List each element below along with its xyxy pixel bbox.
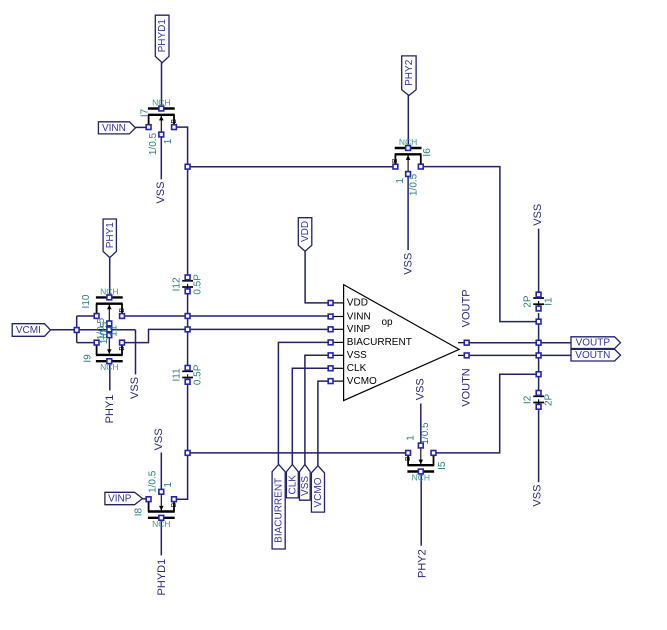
wire I10 bulk to I9 bulk	[108, 326, 110, 333]
junction VOUTP wire	[536, 340, 541, 345]
svg-text:B: B	[392, 158, 399, 163]
wire I5 bulk up to VSS	[420, 404, 422, 445]
wire VSS pin up to op	[305, 355, 328, 464]
pin label VCMI	[12, 324, 50, 337]
svg-text:VCMO: VCMO	[313, 477, 324, 507]
wire I5 drain right/up to VOUTN node	[437, 374, 537, 453]
wire bulk node to VSS (down at x=135.5)	[135, 330, 137, 375]
svg-text:NCH: NCH	[152, 98, 170, 108]
junction VINP node	[185, 327, 190, 332]
svg-text:VSS: VSS	[415, 378, 427, 400]
net label VOUTN (vertical)	[461, 368, 473, 407]
svg-text:VSS: VSS	[129, 377, 141, 399]
svg-text:VOUTN: VOUTN	[461, 368, 473, 407]
wire VDD label to op	[305, 251, 328, 303]
wire VCMO up to op	[318, 381, 328, 466]
svg-text:VINN: VINN	[347, 311, 371, 322]
transistor I7 NCH (switch, gate=PHYD1)	[139, 98, 178, 156]
pin label VOUTP (output)	[571, 337, 621, 349]
svg-text:1/0.5: 1/0.5	[409, 173, 420, 196]
svg-text:I9: I9	[82, 354, 93, 363]
pin label VINN	[98, 122, 135, 134]
svg-text:op: op	[381, 317, 393, 328]
svg-text:VOUTP: VOUTP	[576, 338, 611, 349]
wire I7 drain right and down to node (to cap I12)	[176, 127, 188, 275]
wire VCMI to I10/I9 sources and bulk node	[51, 316, 136, 343]
svg-text:1/0.5: 1/0.5	[148, 132, 159, 155]
junction I6 wire to cap column	[536, 319, 541, 324]
svg-text:VSS: VSS	[347, 350, 367, 361]
svg-text:1: 1	[406, 435, 417, 441]
wire cap I12 bottom to cap I11 top (node VINN/VINP column)	[187, 293, 189, 365]
net label VSS (under I6 bulk)	[402, 253, 414, 275]
svg-text:VSS: VSS	[153, 428, 165, 450]
svg-text:I1: I1	[543, 297, 554, 306]
capacitor I11 0.5P	[172, 364, 204, 385]
wire VSS to cap I1 top	[538, 229, 540, 293]
net label VOUTP (vertical)	[461, 289, 473, 327]
svg-text:VSS: VSS	[300, 476, 311, 496]
svg-text:VDD: VDD	[300, 221, 311, 242]
wire PHY1 label to I10 gate	[109, 258, 111, 297]
svg-text:VINN: VINN	[102, 123, 126, 134]
wire CLK up to op	[292, 368, 328, 464]
svg-text:NCH: NCH	[100, 362, 118, 372]
svg-text:1: 1	[163, 138, 174, 144]
wire node to I5 source (horizontal y=452.9)	[190, 452, 405, 454]
wire I9 drain jog to op VINP	[124, 329, 328, 342]
svg-text:B: B	[119, 308, 126, 313]
svg-text:CLK: CLK	[347, 363, 367, 374]
wire I8 bulk up to VSS	[160, 453, 162, 490]
net label VSS (top right, cap I1)	[532, 204, 544, 226]
junction I10/I9 bulk to VSS	[107, 327, 112, 332]
junction VOUTN wire	[536, 353, 541, 358]
svg-text:VCMO: VCMO	[347, 376, 377, 387]
svg-text:I12: I12	[172, 277, 183, 291]
svg-text:0.5P: 0.5P	[192, 364, 203, 385]
pin label VDD	[298, 218, 312, 252]
svg-text:I11: I11	[172, 368, 183, 382]
op-amp U0 (op)	[328, 285, 469, 401]
svg-text:VSS: VSS	[155, 182, 167, 204]
transistor I10 NCH (switch, gate=PHY1)	[81, 286, 126, 340]
svg-text:NCH: NCH	[152, 519, 170, 529]
pin label PHY2 (top)	[402, 56, 416, 96]
svg-text:VDD: VDD	[347, 298, 368, 309]
net label VSS (I10/I9 bulk)	[129, 377, 141, 399]
svg-text:I8: I8	[133, 507, 144, 516]
wire PHYD1 to I7 gate	[161, 63, 163, 108]
junction node-I6 wire	[185, 164, 190, 169]
svg-text:PHY2: PHY2	[417, 549, 429, 578]
svg-text:B: B	[171, 502, 178, 507]
svg-text:2P: 2P	[523, 295, 534, 308]
junction bottom node	[185, 451, 190, 456]
net label VSS (bottom right, cap I2)	[532, 485, 544, 507]
svg-text:I2: I2	[523, 395, 534, 404]
net label PHYD1 (under I8 gate)	[156, 559, 168, 596]
svg-text:B: B	[171, 119, 178, 124]
pin label VOUTN (output)	[571, 349, 621, 361]
svg-text:1: 1	[395, 178, 406, 184]
svg-text:I7: I7	[139, 108, 150, 117]
svg-text:1/0.5: 1/0.5	[420, 422, 431, 445]
pin label PHYD1 (top)	[155, 15, 169, 63]
svg-text:VOUTN: VOUTN	[575, 350, 610, 361]
svg-text:VINP: VINP	[347, 324, 371, 335]
wire PHY2 to I6 gate	[407, 96, 409, 147]
wire VINN label to I7 source	[136, 126, 147, 128]
svg-text:BIACURRENT: BIACURRENT	[347, 337, 412, 348]
transistor I9 NCH (switch, gate=PHY1)	[82, 321, 125, 372]
svg-text:NCH: NCH	[100, 286, 118, 296]
svg-text:VSS: VSS	[402, 253, 414, 275]
svg-text:PHYD1: PHYD1	[157, 19, 168, 53]
capacitor I1 2P	[523, 292, 555, 311]
svg-text:1/0.5: 1/0.5	[148, 470, 159, 493]
svg-text:PHY1: PHY1	[105, 222, 116, 249]
junction I5 wire to VOUTN node	[536, 372, 541, 377]
svg-text:B: B	[405, 456, 412, 461]
svg-text:VOUTP: VOUTP	[461, 289, 473, 327]
net label PHY1 (under I9 gate)	[104, 395, 116, 424]
net label VSS (above I5 bulk)	[415, 378, 427, 400]
svg-text:0.5P: 0.5P	[192, 274, 203, 295]
wire cap I2 bottom to VSS	[538, 410, 540, 482]
transistor I6 NCH (switch, gate=PHY2)	[392, 137, 433, 196]
capacitor I12 0.5P	[172, 274, 204, 295]
pin label CLK (bottom)	[286, 465, 298, 498]
svg-text:I6: I6	[422, 148, 433, 157]
wire I7 bulk to VSS	[160, 137, 162, 179]
svg-text:VINP: VINP	[108, 494, 132, 505]
svg-text:VSS: VSS	[532, 485, 544, 507]
svg-text:2P: 2P	[543, 393, 554, 406]
svg-text:PHY2: PHY2	[404, 59, 415, 86]
transistor I5 NCH (switch, gate=PHY2)	[405, 422, 448, 483]
svg-text:I5: I5	[437, 461, 448, 470]
wire op VOUTN to output label	[469, 354, 571, 356]
svg-text:CLK: CLK	[287, 475, 298, 495]
svg-text:I10: I10	[81, 294, 92, 308]
wire I6 bulk to VSS	[407, 176, 409, 250]
pin label VCMO (bottom)	[311, 466, 324, 512]
wire node to I6 source (horizontal y=166.7)	[190, 166, 393, 168]
wire I5 gate down to PHY2	[420, 474, 422, 546]
wire I9 gate to PHY1	[109, 364, 111, 391]
svg-text:1: 1	[163, 482, 174, 488]
svg-text:NCH: NCH	[399, 137, 417, 147]
junction VCMI	[74, 328, 79, 333]
transistor I8 NCH (switch, gate=PHYD1)	[133, 470, 177, 529]
net label VSS (under I7 bulk)	[155, 182, 167, 204]
svg-text:PHYD1: PHYD1	[156, 559, 168, 596]
svg-text:1: 1	[109, 325, 120, 331]
pin label VINP	[105, 492, 143, 504]
svg-text:B: B	[119, 346, 126, 351]
wire cap I11 bottom down to I8 drain	[176, 384, 187, 500]
wire cap I1 bottom down across outputs to cap I2	[538, 313, 540, 391]
svg-text:BIACURRENT: BIACURRENT	[274, 478, 285, 543]
wire BIACURRENT up to op	[278, 342, 328, 464]
svg-text:PHY1: PHY1	[104, 395, 116, 424]
svg-text:VSS: VSS	[532, 204, 544, 226]
pin label VSS (bottom)	[300, 465, 311, 501]
junction VINN node	[185, 314, 190, 319]
svg-text:VCMI: VCMI	[16, 325, 41, 336]
wire op VOUTP to output label	[469, 342, 571, 344]
net label VSS (above I8 bulk)	[153, 428, 165, 450]
wire VINP label to I8 source	[143, 498, 147, 500]
wire I8 gate down to PHYD1	[160, 520, 162, 555]
pin label PHY1 (left)	[103, 219, 116, 258]
pin label BIACURRENT (bottom)	[272, 465, 285, 550]
svg-text:1: 1	[109, 331, 120, 337]
wire I10 drain to op VINN (horizontal y=316)	[124, 315, 328, 317]
net label PHY2 (under I5 gate)	[417, 549, 429, 578]
svg-text:NCH: NCH	[412, 473, 430, 483]
capacitor I2 2P	[523, 391, 555, 410]
wire I6 drain right/down to cap I1 node	[423, 167, 536, 322]
